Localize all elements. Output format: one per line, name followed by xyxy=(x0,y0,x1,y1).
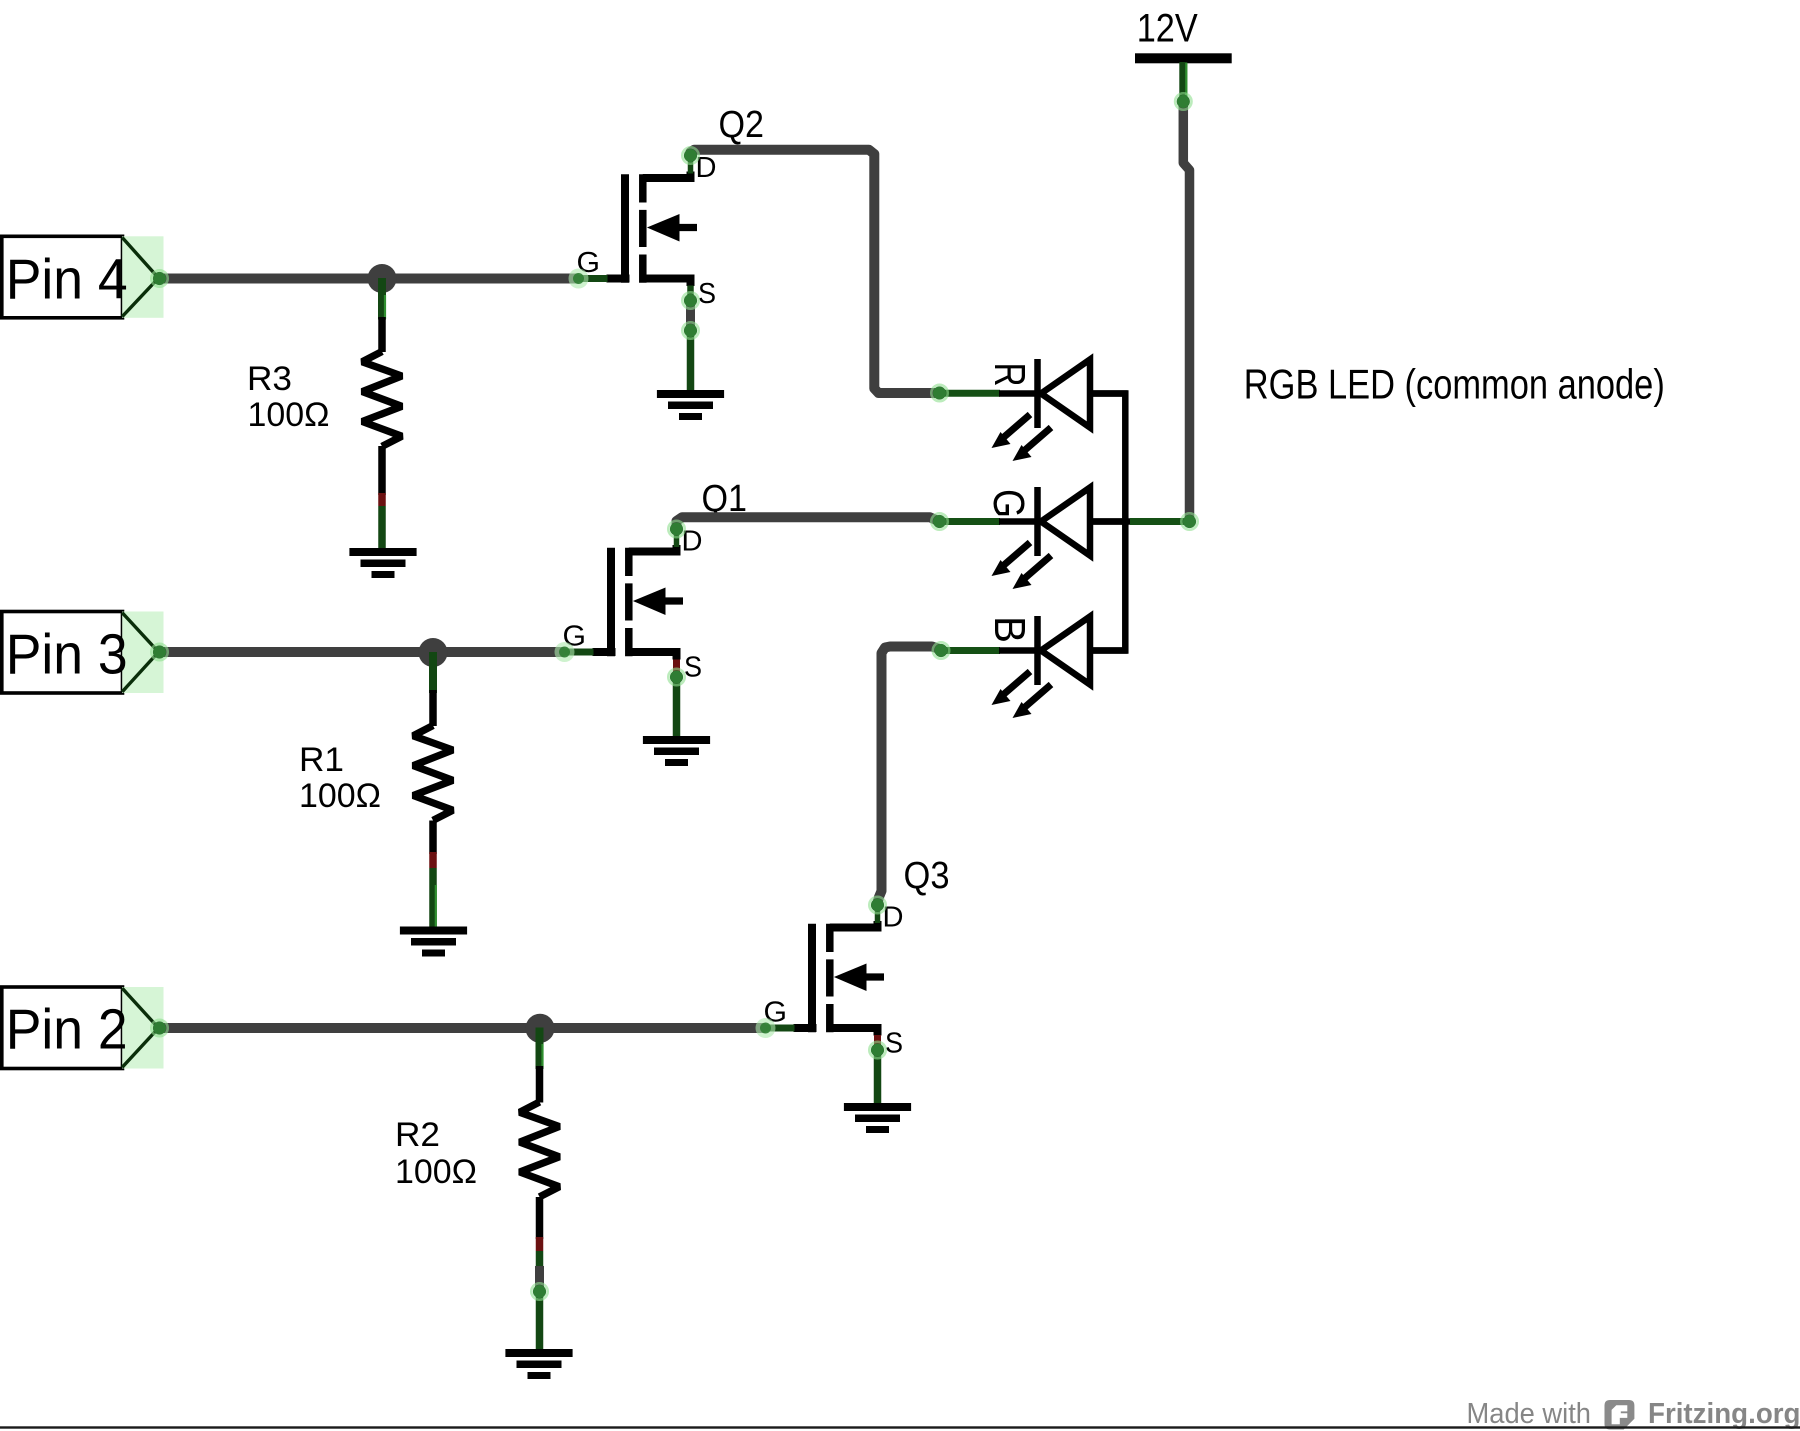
node Q3 gate terminal xyxy=(756,1018,776,1038)
node Q2 source wire bendpoint xyxy=(682,322,698,338)
node LED G input xyxy=(931,513,947,529)
svg-text:12V: 12V xyxy=(1137,7,1198,51)
wire Pin 2 to Q3 gate xyxy=(161,1023,766,1033)
node Q2 source xyxy=(682,292,698,308)
wire Q2 source to ground xyxy=(687,286,694,397)
label R1 value 100 ohm xyxy=(299,741,381,815)
LED G (green element) xyxy=(992,487,1128,589)
wire bus to 12V junction (green) xyxy=(1130,518,1190,525)
power 12V pin stub xyxy=(1179,62,1187,101)
wire Q3 drain to LED B cathode xyxy=(878,647,942,904)
connector Pin 4 xyxy=(2,236,164,317)
wire node to LED G cathode lead (green) xyxy=(940,518,1001,525)
svg-text:Pin 4: Pin 4 xyxy=(6,248,128,312)
node Pin 3 terminal xyxy=(151,644,167,660)
Fritzing logo xyxy=(1605,1400,1635,1430)
wire Pin 4 to Q2 gate xyxy=(161,274,579,284)
LED common anode bus xyxy=(1087,390,1131,654)
svg-text:G: G xyxy=(984,489,1033,518)
power symbol 12V rail bar xyxy=(1135,53,1232,63)
svg-text:Pin 2: Pin 2 xyxy=(6,998,128,1062)
junction Pin 4 wire / R3 xyxy=(368,264,397,293)
connector Pin 2 xyxy=(2,987,164,1069)
junction LED common anode / 12V xyxy=(1181,513,1197,529)
wire Pin 3 to Q1 gate xyxy=(161,647,565,657)
node Q1 drain xyxy=(668,521,684,537)
transistor Q2 (N-MOSFET) xyxy=(577,152,717,310)
label R3 value 100 ohm xyxy=(247,360,330,434)
svg-text:R1: R1 xyxy=(299,741,344,779)
wire Q2 drain to LED R cathode xyxy=(691,150,940,393)
transistor Q3 (N-MOSFET) xyxy=(764,902,904,1060)
svg-text:R3: R3 xyxy=(247,360,292,398)
node Q1 source xyxy=(668,669,684,685)
svg-text:Made with: Made with xyxy=(1467,1398,1592,1430)
wire node to LED B cathode lead (green) xyxy=(941,647,1000,654)
resistor R1 xyxy=(413,652,453,933)
svg-text:100Ω: 100Ω xyxy=(395,1153,477,1191)
node Q3 drain xyxy=(869,897,885,913)
resistor R2 xyxy=(520,1028,560,1293)
ground below R1 xyxy=(400,927,467,957)
node LED B input xyxy=(933,642,949,658)
wire Q3 source to ground xyxy=(874,1035,881,1108)
ground below Q3 xyxy=(844,1103,911,1133)
node Q2 gate terminal xyxy=(569,269,589,289)
svg-text:R2: R2 xyxy=(395,1116,440,1154)
node 12V pin connection xyxy=(1175,93,1191,109)
transistor Q1 (N-MOSFET) xyxy=(563,526,703,684)
node R2 ground wire bendpoint xyxy=(531,1283,547,1299)
wire R2 to ground xyxy=(535,1266,544,1353)
LED R (red element) xyxy=(992,359,1128,461)
wire 12V supply to LED common anode junction xyxy=(1183,101,1189,522)
svg-text:Q3: Q3 xyxy=(904,855,950,897)
connector Pin 3 xyxy=(2,612,164,694)
ground below Q2 xyxy=(657,390,724,420)
label R2 value 100 ohm xyxy=(395,1116,477,1191)
wire Q1 drain to LED G cathode xyxy=(677,517,940,526)
junction Pin 2 wire / R2 xyxy=(526,1014,555,1043)
ground below R3 xyxy=(349,548,416,578)
node Pin 2 terminal xyxy=(151,1020,167,1036)
wire node to LED R cathode lead (green) xyxy=(940,390,1001,397)
svg-text:Fritzing.org: Fritzing.org xyxy=(1648,1398,1800,1430)
ground below Q1 xyxy=(643,736,710,766)
bottom border line xyxy=(0,1426,1800,1428)
ground below R2 xyxy=(505,1349,572,1379)
node Q1 gate terminal xyxy=(555,642,575,662)
LED B (blue element) xyxy=(992,616,1128,718)
resistor R3 xyxy=(362,278,402,551)
svg-text:Q2: Q2 xyxy=(719,104,765,146)
node Q3 source xyxy=(869,1042,885,1058)
junction Pin 3 wire / R1 xyxy=(419,638,448,667)
svg-text:B: B xyxy=(985,616,1034,643)
svg-text:100Ω: 100Ω xyxy=(248,396,330,434)
node Q2 drain xyxy=(682,147,698,163)
svg-text:R: R xyxy=(985,363,1034,387)
svg-text:RGB LED (common anode): RGB LED (common anode) xyxy=(1244,361,1665,408)
svg-text:100Ω: 100Ω xyxy=(299,777,381,815)
node LED R input xyxy=(931,385,947,401)
node Pin 4 terminal xyxy=(151,270,167,286)
svg-text:Pin 3: Pin 3 xyxy=(6,623,128,687)
wire Q1 source to ground xyxy=(673,660,680,742)
